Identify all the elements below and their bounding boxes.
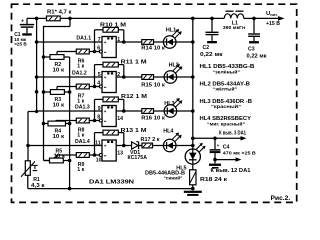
resistor R13 1M feedback [95,128,147,155]
LED HL4 [163,129,182,152]
resistor R17 2k [141,137,164,148]
wire +15V top rail [27,17,193,19]
LED HL1 [163,27,181,48]
svg-text:10 к: 10 к [53,103,65,109]
wire pin13 to VD1 [116,145,131,147]
svg-text:HL2: HL2 [169,62,179,68]
svg-text:C2: C2 [203,45,210,51]
svg-text:0,22 мк: 0,22 мк [247,53,268,59]
wire node A to pin 5 [37,76,102,78]
zener diode VD1 KC175A [128,142,148,161]
resistor R1* 4,7k [47,9,72,20]
resistor R15 10k [116,75,165,89]
svg-text:5: 5 [98,72,101,78]
pin numbers 11,10,13 of DA1.4 [95,141,123,164]
op-amp comparator DA1.1 [76,35,116,57]
node rail-R1 right junction [68,17,72,21]
svg-text:+: + [21,18,24,24]
svg-text:+: + [104,109,107,114]
wire HL1 to +15V bus [176,40,195,44]
svg-text:7: 7 [98,37,101,43]
svg-text:HL4 SB2R6SBECY: HL4 SB2R6SBECY [200,116,252,122]
svg-text:DA1 LM339N: DA1 LM339N [89,179,134,185]
svg-text:1 к: 1 к [77,64,84,70]
svg-text:4: 4 [97,81,100,87]
svg-text:10: 10 [96,157,102,163]
svg-text:DA1.3: DA1.3 [75,104,90,110]
wire to pin12 arrow [215,157,242,161]
node A junction [35,90,39,94]
svg-text:DA1.2: DA1.2 [72,70,87,76]
svg-text:R17 2 к: R17 2 к [141,137,160,143]
trimmer R2 10k [42,52,77,74]
svg-text:“миг. красный”: “миг. красный” [207,121,246,128]
node rail-C1 junction [35,17,39,21]
trimmer R5 10k [44,148,77,163]
svg-text:“синий”: “синий” [164,174,184,181]
svg-text:Рис.2.: Рис.2. [271,195,291,202]
svg-text:DA1.4: DA1.4 [75,139,90,145]
wire R1-right to divider column [44,18,71,26]
svg-text:К выв. 3 DA1: К выв. 3 DA1 [219,131,246,137]
ground at C4 [209,160,221,169]
wire HL3 to +15V bus [177,109,195,113]
wire rail to L1 [193,17,225,21]
svg-text:R12 1 М: R12 1 М [121,94,147,100]
pin numbers 9,8,14 of DA1.3 [97,106,123,122]
svg-text:1 к: 1 к [77,167,84,173]
svg-text:14: 14 [117,116,123,122]
label HL2 type [200,81,251,92]
capacitor C3 0,22uF with ground [247,18,268,59]
svg-text:10 к: 10 к [54,154,66,160]
wire HL2 to +15V bus [177,75,195,79]
svg-text:11: 11 [95,141,101,147]
svg-text:R18 24 к: R18 24 к [200,177,228,183]
label HL5 type [145,170,185,181]
trimmer R3 10k [42,87,77,109]
pin numbers 7,6,1 of DA1.1 [97,37,120,52]
capacitor C2 0,22uF with ground [200,18,223,58]
svg-text:HL3 DB5-436DR -B: HL3 DB5-436DR -B [200,99,253,105]
node C4 bottom junction [213,158,217,162]
wire column B (divider left rail) [44,26,50,161]
capacitor C1 10uF 25V with ground [14,18,34,47]
svg-text:Uпит.: Uпит. [266,11,278,17]
svg-text:+: + [217,143,220,148]
resistor R11 1M feedback [95,60,147,87]
svg-text:HL4: HL4 [163,129,173,135]
svg-text:HL1 DB5-433BG-B: HL1 DB5-433BG-B [200,64,255,70]
svg-text:×25 В: ×25 В [14,42,27,48]
svg-text:“зелёный”: “зелёный” [213,69,241,76]
node L1-C3 junction [252,17,256,21]
node A pin5 junction [35,75,39,79]
resistor R8 1k [76,118,101,138]
label HL1 type [200,64,255,75]
svg-text:13: 13 [117,150,123,156]
node A pin9 corner [35,110,38,113]
thermistor R1 4,3k [21,161,45,189]
svg-text:КС175А: КС175А [128,155,148,161]
svg-text:1 к: 1 к [77,133,84,139]
resistor R12 1M feedback [95,94,148,121]
resistor R10 1M feedback [95,22,127,51]
svg-text:R13 1 М: R13 1 М [121,128,147,134]
border frame (dashed) [12,4,297,202]
ground at R18 [184,191,202,196]
wire bottom ground rail [28,188,193,190]
svg-text:+: + [104,143,107,148]
resistor R9 1k [76,153,101,173]
wire column C (divider right rail) [69,57,71,189]
svg-text:10 к: 10 к [53,68,65,74]
LED HL5 blue [176,143,205,172]
wire bus to pin3 branch [191,131,247,141]
resistor R18 24k [190,164,228,190]
figure caption Рис.2. [271,195,291,202]
svg-text:0,22 мк: 0,22 мк [200,52,223,58]
trimmer R4 10k [42,121,77,141]
svg-text:К выв. 12 DA1: К выв. 12 DA1 [211,168,251,174]
svg-text:DA1.1: DA1.1 [76,35,91,41]
capacitor C4 470uF 25V [210,138,257,159]
svg-text:R11 1 М: R11 1 М [121,60,147,66]
pin numbers 5,4,2 of DA1.2 [97,72,120,87]
svg-text:C3: C3 [248,47,255,53]
label HL4 type [200,116,252,127]
node C4 top junction [213,137,217,141]
LED HL2 [164,62,182,83]
svg-text:C4: C4 [223,144,230,150]
svg-text:6: 6 [97,46,100,52]
svg-text:R16 10 к: R16 10 к [141,116,165,122]
svg-text:R10 1 М: R10 1 М [100,22,126,28]
label К выв. 12 DA1 [211,168,251,174]
op-amp comparator DA1.2 [72,70,116,92]
wire node A to pin 7 [37,41,102,43]
node C row3 junction [68,122,72,126]
svg-text:HL2 DB5-434AY-B: HL2 DB5-434AY-B [200,81,251,87]
svg-text:HL1: HL1 [166,27,176,33]
output terminal Uпит +15V [254,11,285,27]
resistor R7 1k [76,84,101,104]
svg-text:+: + [104,40,107,45]
node C bottom rail junction [68,187,72,191]
svg-text:+: + [104,75,107,80]
wire node A to pin 9 [37,110,102,112]
resistor R6 1k [76,49,101,69]
node A pin7 junction [35,40,39,44]
svg-text:+15 В: +15 В [266,21,280,27]
svg-text:8: 8 [97,115,100,121]
op-amp comparator DA1.4 [75,139,116,161]
svg-text:R1* 4,7 к: R1* 4,7 к [47,9,72,15]
inductor L1 390uH [223,11,254,31]
svg-text:9: 9 [98,106,101,112]
svg-text:HL3: HL3 [164,101,174,107]
wire HL4 to +15V bus [176,144,195,148]
svg-text:470 мк ×25 В: 470 мк ×25 В [223,151,257,157]
node C row2 junction [68,90,72,94]
wire column A (signal to + inputs) [36,18,38,111]
svg-text:R14 10 к: R14 10 к [141,45,165,51]
wire LED anode bus [191,17,195,150]
wire thermistor node to pin 11 [28,145,102,147]
node thermistor column pin11 junction [26,144,30,148]
wire A jog to thermistor column [28,112,37,161]
svg-text:10 к: 10 к [53,134,65,140]
resistor R16 10k [116,109,165,122]
LED HL3 [164,98,182,117]
svg-text:4,3 к: 4,3 к [31,183,45,189]
resistor R14 10k [116,40,165,52]
svg-text:R15 10 к: R15 10 к [141,82,165,88]
svg-text:“жёлтый”: “жёлтый” [213,86,238,93]
op-amp comparator DA1.3 [75,104,116,126]
svg-text:“красный”: “красный” [211,103,242,110]
label HL3 type [200,99,253,110]
label DA1 LM339N [89,179,134,185]
svg-text:390 мкГн: 390 мкГн [223,25,245,31]
node C row4 junction [68,159,72,163]
